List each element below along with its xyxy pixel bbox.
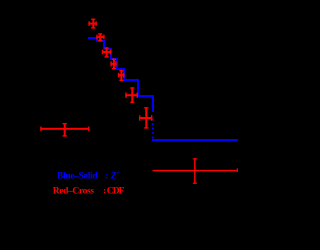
svg-text:: Z′: : Z′ <box>105 172 119 182</box>
svg-text:Blue–Solid: Blue–Solid <box>57 172 98 182</box>
svg-text:Red–Cross: Red–Cross <box>53 187 95 197</box>
svg-text:: CDF: : CDF <box>103 187 125 197</box>
